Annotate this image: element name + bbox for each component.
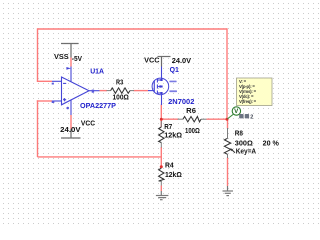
resistor R6 (178, 117, 207, 122)
svg-text:-5V: -5V (72, 54, 83, 63)
svg-text:U1A: U1A (90, 66, 104, 75)
wire left lower vertical (37, 100, 39, 157)
svg-text:R4: R4 (165, 160, 174, 169)
svg-text:R8: R8 (235, 129, 243, 138)
wire to op-amp inverting input (37, 80, 52, 82)
op-amp pin marker minus input (52, 83, 54, 85)
MOSFET Q1 arrow (157, 85, 160, 88)
label probe 2 (CJK glyphs) (239, 114, 249, 118)
resistor R3 (107, 88, 135, 93)
MOSFET Q1 body (148, 67, 162, 106)
wire R6 right to probe node (207, 118, 228, 120)
svg-text:VSS: VSS (54, 52, 69, 61)
wire R3 to Q1 gate (134, 90, 149, 92)
VSS supply stem (70, 44, 72, 58)
svg-text:R6: R6 (186, 106, 196, 115)
junction node R4 top (160, 165, 163, 168)
resistor R7 (159, 121, 164, 148)
svg-text:VCC: VCC (144, 56, 160, 65)
resistor R4 (159, 168, 164, 185)
ground (below R8) (223, 186, 234, 196)
junction node A (source/R6/R7) (160, 118, 163, 121)
VSS supply bar (61, 43, 79, 45)
op-amp pin marker V- (66, 107, 69, 110)
ground (below R4) (156, 191, 169, 200)
junction node output probe (226, 118, 229, 121)
svg-text:VCC: VCC (81, 118, 96, 127)
VCC supply (Q1) stem (161, 57, 163, 67)
svg-text:OPA2277P: OPA2277P (80, 101, 116, 110)
svg-text:2N7002: 2N7002 (168, 97, 194, 106)
VCC supply stem gray (70, 129, 72, 138)
svg-text:Q1: Q1 (170, 65, 180, 74)
wire probe node to R8 top (227, 119, 229, 128)
op-amp V+ net arrow (66, 67, 70, 70)
svg-text:12kΩ: 12kΩ (164, 131, 182, 140)
wire op-amp output to R3 (100, 90, 108, 92)
wire R7 bottom to R4 node (160, 147, 162, 167)
MOSFET Q1 internal dots (160, 79, 162, 81)
op-amp pin marker output (92, 90, 94, 93)
probe V circle (227, 114, 233, 119)
svg-text:24.0V: 24.0V (60, 125, 81, 134)
svg-text:20 %: 20 % (263, 138, 280, 147)
VCC supply bar (61, 137, 81, 139)
VCC supply (below op-amp) stem blue part (70, 115, 72, 129)
svg-text:100Ω: 100Ω (185, 126, 200, 135)
wire node to R7 top (160, 119, 162, 127)
wire R4 bottom to ground (160, 186, 162, 192)
svg-text:2: 2 (250, 114, 253, 120)
svg-text:Key=A: Key=A (236, 146, 257, 155)
probe readout box (237, 78, 273, 106)
wire top feedback (38, 28, 228, 30)
MOSFET Q1 pin dashes (169, 81, 176, 83)
wire node to R6 left (161, 118, 178, 120)
potentiometer R8 wiper arrow (232, 149, 236, 152)
op-amp U1A triangle (52, 67, 100, 116)
wire R8 bottom to ground (227, 158, 229, 187)
VCC supply (Q1) bar (158, 56, 171, 58)
op-amp pin marker plus input (52, 101, 55, 103)
MOSFET Q1 circle (152, 78, 169, 95)
wire right vertical from top to probe node (226, 28, 228, 119)
wire to op-amp non-inverting input (37, 100, 52, 102)
svg-text:100Ω: 100Ω (113, 93, 129, 102)
svg-text:R3: R3 (116, 78, 123, 87)
wire Q1 source down to node (160, 105, 162, 120)
svg-text:24.0V: 24.0V (172, 56, 192, 65)
wire bottom feedback to node (38, 156, 162, 158)
svg-text:12kΩ: 12kΩ (165, 170, 182, 179)
wire left vertical to inverting input (37, 28, 39, 81)
VSS supply stem red part (70, 58, 72, 67)
potentiometer R8 (224, 128, 230, 158)
svg-text:V(freq): =: V(freq): = (239, 99, 257, 104)
